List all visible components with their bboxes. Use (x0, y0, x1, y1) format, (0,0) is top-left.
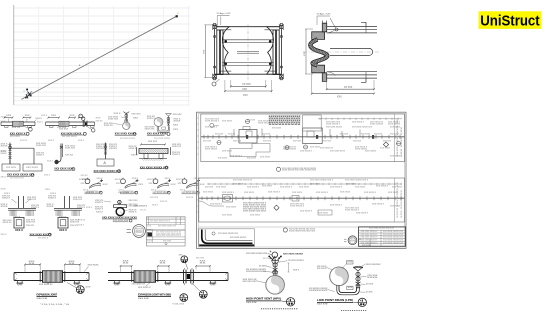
band1 small bubbles (246, 120, 250, 124)
pig glyph under sheet (196, 251, 304, 260)
band1 caption (276, 167, 280, 171)
svg-text:XXX XXXX: XXX XXXX (88, 265, 100, 267)
svg-text:XXX XXXX X: XXX XXXX X (376, 186, 389, 188)
svg-text:XXX X: XXX X (15, 229, 23, 232)
svg-text:XX: XX (29, 263, 37, 265)
svg-text:XXX XXXX X: XXX XXXX X (38, 237, 49, 239)
svg-text:XXX XXXX: XXX XXXX (10, 136, 21, 138)
svg-text:XXXXXXXXXX: XXXXXXXXXX (269, 124, 303, 126)
svg-text:EXPANSION JOINT: EXPANSION JOINT (37, 293, 58, 297)
svg-text:XXX XXXX XXXXX XXX: XXX XXXX XXXXX XXX (383, 234, 404, 236)
svg-text:XXX: XXX (173, 125, 179, 127)
svg-text:XXX XXXX: XXX XXXX (390, 127, 401, 129)
svg-text:XXX XXXX XX: XXX XXXX XX (320, 148, 334, 150)
svg-text:XXX XXX: XXX XXX (59, 129, 69, 131)
svg-text:XXX XXX: XXX XXX (132, 114, 142, 116)
mini expansion joint detail EJ-A (1, 115, 43, 138)
svg-text:XXXX X: XXXX X (77, 207, 86, 209)
svg-text:UniStruct: UniStruct (480, 13, 540, 29)
svg-text:XXX XXXX XXXXX XXX XXX: XXX XXXX XXXXX XXX XXX (369, 228, 395, 230)
svg-text:XXX XXXX: XXX XXXX (218, 158, 228, 160)
svg-text:XXX XXXX XXXXX X: XXX XXXX XXXXX X (361, 237, 379, 239)
svg-text:XXX: XXX (86, 287, 92, 289)
svg-text:XXX XXXX: XXX XXXX (203, 192, 214, 194)
svg-text:XXX XX: XXX XX (81, 175, 89, 177)
svg-text:XXX XXXX: XXX XXXX (310, 147, 321, 149)
svg-text:XXXX XXXXX XXX XXXX XXX: XXXX XXXXX XXX XXXX XXX (289, 230, 316, 232)
graph end-point marker (176, 15, 178, 17)
svg-text:XXXXXXXXXX: XXXXXXXXXX (309, 290, 329, 292)
band1 diamond symbols (383, 142, 388, 147)
svg-text:XXXX X: XXXX X (36, 154, 45, 156)
svg-text:XXX XXXX: XXX XXXX (380, 148, 391, 150)
svg-text:XXXX X: XXXX X (95, 208, 104, 210)
svg-text:XXX: XXX (337, 96, 342, 98)
svg-text:XXXX XX: XXXX XX (3, 222, 13, 224)
svg-text:XXXX X: XXXX X (2, 197, 11, 199)
svg-text:A: A (104, 161, 107, 165)
svg-text:XXX XXXX X: XXX XXXX X (230, 156, 243, 158)
svg-text:EXPANSION JOINT WITH DBB: EXPANSION JOINT WITH DBB (138, 293, 171, 297)
svg-text:XXX XXXX X: XXX XXXX X (352, 122, 365, 124)
svg-text:#XX XXXX XXXX: #XX XXXX XXXX (287, 260, 301, 262)
svg-text:XXX: XXX (171, 184, 177, 186)
drain L-pipe detail (54, 144, 90, 182)
svg-text:XXX XXXX XXXXX X: XXX XXXX XXXXX X (361, 240, 379, 242)
svg-text:XXX: XXX (51, 115, 57, 117)
svg-text:XXX XXXX XXXXX X: XXX XXXX XXXXX X (361, 231, 379, 233)
svg-text:XXX XXXX: XXX XXXX (250, 215, 261, 217)
anchor weld sq box 1 (3, 217, 36, 233)
svg-text:XXX: XXX (45, 189, 51, 191)
svg-text:XXXX XXXXX X: XXXX XXXXX X (205, 120, 220, 122)
svg-text:XXX XXXX: XXX XXXX (318, 213, 329, 215)
svg-text:XXXX: XXXX (367, 277, 379, 279)
svg-text:XXX XXXX XXXXX: XXX XXXX XXXXX (62, 136, 78, 138)
svg-text:XXX X: XXX X (149, 183, 155, 185)
svg-text:XXX X: XXX X (97, 178, 104, 180)
svg-text:XX App x XXX: XX App x XXX (317, 13, 332, 16)
svg-text:XXX XXX: XXX XXX (148, 141, 158, 143)
svg-text:* X 1G, X 1G: * X 1G, X 1G (172, 304, 185, 306)
svg-text:XXXXX X: XXXXX X (136, 232, 144, 234)
svg-text:XXX XXXX: XXX XXXX (118, 192, 130, 194)
svg-text:XXXX: XXXX (1, 153, 8, 155)
graph grid vertical lines (39, 6, 189, 105)
svg-text:XXX XXXX: XXX XXXX (260, 157, 271, 159)
svg-text:XXX XXXX XXXXX: XXX XXXX XXXXX (283, 254, 304, 256)
svg-text:XXX XXXX X: XXX XXXX X (210, 204, 223, 206)
band1 dense header text (269, 116, 303, 126)
low point drain detail LPD (301, 260, 382, 310)
svg-text:XXXX: XXXX (1, 206, 9, 208)
svg-text:XXX XXXX: XXX XXXX (26, 167, 39, 169)
svg-text:XXX XX: XXX XX (228, 134, 236, 136)
svg-text:XXX X: XXX X (13, 217, 21, 219)
svg-text:XXX XXX: XXX XXX (293, 141, 302, 143)
svg-text:XXX X: XXX X (132, 178, 139, 180)
band2 top tick line (207, 183, 402, 185)
svg-text:XXX XXXX XXXXX: XXX XXXX XXXXX (326, 127, 343, 129)
svg-text:XXXXX XXX XXXX XXXXX XXX X: XXXXX XXX XXXX XXXXX XXX X (156, 235, 182, 237)
sheet margin ticks (197, 118, 199, 212)
svg-text:HIGH POINT VENT (HPV): HIGH POINT VENT (HPV) (246, 297, 281, 301)
svg-text:XXXX XXX: XXXX XXX (145, 128, 156, 130)
svg-text:XX XXXX: XX XXXX (259, 266, 267, 268)
svg-text:XXX XXXX XXXXX XXX: XXX XXXX XXXXX XXX (383, 231, 404, 233)
svg-text:XXX: XXX (138, 184, 144, 186)
band1 right margin box (394, 114, 396, 162)
svg-text:XXXX: XXXX (47, 206, 55, 208)
svg-text:XXX XXX: XXX XXX (205, 187, 214, 189)
svg-text:XXX: XXX (204, 49, 206, 54)
svg-text:XXX X: XXX X (59, 229, 67, 232)
svg-text:XXXX X: XXXX X (129, 211, 138, 213)
svg-text:XXXX XXX: XXXX XXX (65, 147, 76, 149)
svg-text:XXX XX: XXX XX (20, 140, 28, 142)
svg-text:XXX X: XXX X (41, 115, 48, 117)
svg-text:XX XXX: XX XXX (242, 84, 251, 86)
svg-text:XXXX XXX XXXX XX: XXXX XXX XXXX XX (397, 117, 399, 157)
svg-text:XXX XXXX: XXX XXXX (226, 207, 237, 209)
svg-text:XXX XXXX: XXX XXXX (222, 121, 233, 123)
svg-text:XXX X: XXX X (1, 234, 8, 236)
svg-text:XXX XXXX: XXX XXXX (292, 192, 303, 194)
graph grid horizontal lines (log-scale) (14, 8, 190, 105)
svg-text:XXX XXXX X: XXX XXXX X (330, 205, 343, 207)
svg-text:XXX XXXX XXXXX XXX: XXX XXXX XXXXX XXX (158, 226, 177, 228)
mini low point drain detail (145, 114, 183, 141)
expansion joint elevation EJ-1 (14, 261, 99, 306)
svg-text:XXXX XXXXX: XXXX XXXXX (258, 122, 271, 124)
svg-text:XXXX XXXXX: XXXX XXXXX (205, 148, 218, 150)
svg-text:SCALE: NONE: SCALE: NONE (138, 297, 149, 300)
flange pair detail (95, 200, 138, 222)
svg-text:XXX X: XXX X (44, 175, 51, 177)
svg-text:XXX X: XXX X (59, 217, 67, 219)
svg-text:XXX XX: XXX XX (26, 225, 35, 227)
svg-text:XXX XXXX: XXX XXXX (365, 151, 377, 153)
svg-text:XXX XXXX: XXX XXXX (6, 167, 17, 169)
svg-text:XXXX: XXXX (173, 120, 181, 122)
sheet title block table (359, 227, 406, 246)
svg-text:XXXX XXXXX XXX XXXX XXXXX XXX: XXXX XXXXX XXX XXXX XXXXX XXX (282, 170, 317, 172)
svg-text:XXX XXXX: XXX XXXX (247, 158, 257, 160)
svg-text:XXX XXXX XXX: XXX XXXX XXX (401, 189, 403, 218)
band1 equipment rect 1 (239, 127, 257, 144)
svg-text:XXX X: XXX X (50, 193, 57, 195)
svg-text:XXX: XXX (173, 129, 179, 131)
svg-text:XXXX XXXXXXX: XXXX XXXXXXX (366, 264, 382, 266)
svg-text:XX XXX: XX XXX (366, 292, 373, 294)
svg-text:XXX XXXX: XXX XXXX (361, 134, 371, 136)
pipe branch connection details (x4) (79, 178, 109, 195)
specification table (134, 205, 185, 246)
svg-text:XXX XXXX XXXXX X: XXX XXXX XXXXX X (361, 234, 379, 236)
sheet inner divider line (199, 226, 406, 228)
svg-text:XXX XX: XXX XX (86, 192, 95, 194)
svg-text:XXX XXX: XXX XXX (215, 134, 224, 136)
svg-text:XXX XXXX: XXX XXXX (233, 183, 244, 185)
svg-text:XXXXX: XXXXX (109, 148, 118, 150)
svg-text:XXX X: XXX X (96, 211, 104, 213)
band1 left bubble (210, 123, 214, 127)
vent manifold piping detail (1, 143, 47, 180)
svg-text:XXX XXXX: XXX XXXX (216, 187, 227, 189)
svg-text:XXX: XXX (348, 287, 354, 289)
svg-text:XXXX XX: XXXX XX (26, 221, 36, 223)
svg-text:SCALE: NONE: SCALE: NONE (37, 297, 48, 300)
drawing sheet border (197, 112, 407, 248)
svg-text:XXXX XXXXX X: XXXX XXXXX X (345, 209, 360, 211)
svg-text:XXX XX: XXX XX (78, 220, 86, 222)
svg-text:XXX XXXX XXXXX XXX: XXX XXXX XXXXX XXX (218, 233, 239, 235)
svg-text:XXX XX: XXX XX (186, 197, 194, 199)
graph annotation cluster near origin (26, 92, 31, 99)
svg-text:XXX XXXX X: XXX XXXX X (300, 211, 313, 213)
svg-text:XX: XX (301, 260, 306, 262)
svg-text:XXX: XXX (25, 115, 31, 117)
svg-text:XXX XXX: XXX XXX (353, 141, 362, 143)
riser stack detail (94, 143, 121, 173)
svg-text:XXX XXXX: XXX XXXX (272, 128, 282, 130)
sheet band drawing 1 frame (201, 114, 405, 162)
svg-text:XXXX XXX XXXX XX: XXXX XXX XXXX XX (397, 181, 399, 218)
svg-text:XXX X: XXX X (78, 225, 85, 227)
svg-text:XXXX XX: XXXX XX (27, 199, 37, 201)
svg-text:XXX XXXX XXX: XXX XXXX XXX (401, 125, 403, 157)
svg-text:XXX XXXX XXXXX XXX X: XXX XXXX XXXXX XXX X (150, 220, 171, 222)
svg-text:XXX XXXX X: XXX XXXX X (268, 192, 281, 194)
bellows expansion joint section view B1 (204, 12, 284, 97)
svg-text:XXX XXX: XXX XXX (173, 114, 183, 116)
svg-text:XXX XXXX: XXX XXXX (390, 206, 401, 208)
svg-text:XXX XXXX: XXX XXXX (244, 192, 255, 194)
mini expansion joint with DBB detail EJ-B (46, 114, 95, 138)
svg-text:XXX XXXX X: XXX XXXX X (316, 192, 329, 194)
svg-text:XXX XXXX X: XXX XXXX X (356, 213, 369, 215)
svg-text:XXX X: XXX X (165, 178, 172, 180)
svg-text:XXX X: XXX X (48, 140, 55, 142)
svg-text:XXX X: XXX X (147, 240, 153, 242)
svg-text:XX XXX: XX XXX (366, 284, 374, 286)
svg-text:XXX XXX XX: XXX XXX XX (317, 268, 327, 270)
svg-text:XXX X: XXX X (37, 122, 44, 124)
sheet band drawing 2 frame (199, 178, 405, 222)
svg-text:XXX XXXX XXXXX XX: XXX XXXX XXXXX XX (233, 180, 253, 182)
high point vent detail HPV (243, 256, 302, 309)
svg-text:XXX XXXX X: XXX XXXX X (364, 192, 377, 194)
svg-text:XXX XXXX: XXX XXXX (222, 215, 233, 217)
svg-text:XXX X: XXX X (152, 205, 159, 207)
band2 pipeline (199, 197, 405, 199)
svg-text:XXX: XXX (103, 184, 109, 186)
band1 pipeline ticks (204, 135, 400, 139)
band1 top tick line (318, 118, 402, 120)
svg-text:XXX XX: XXX XX (65, 155, 74, 157)
svg-text:XXX XXXX: XXX XXXX (163, 241, 172, 243)
sheet approval stamp (344, 236, 372, 247)
svg-text:XXX XXXX: XXX XXXX (310, 183, 321, 185)
svg-text:XXX XXXX XXXX: XXX XXXX XXXX (330, 151, 346, 153)
svg-text:XXX: XXX (133, 118, 139, 120)
svg-text:XXXXX: XXXXX (96, 148, 105, 150)
band1 equipment rect 2 (303, 115, 323, 144)
band1 risers (234, 129, 360, 137)
graph diagonal data line (21, 16, 176, 99)
svg-text:XXX XXXX XX: XXX XXXX XX (132, 283, 146, 285)
svg-text:XX: XX (123, 262, 131, 264)
svg-text:XXX XXXX X: XXX XXXX X (330, 187, 343, 189)
mini high point vent detail (104, 112, 141, 141)
svg-text:XXX X: XXX X (78, 140, 85, 142)
svg-text:XXX XXXX XXXXX XXX: XXX XXXX XXXXX XXX (352, 127, 373, 129)
svg-text:XXXX XX: XXXX XX (73, 199, 83, 201)
svg-text:XXX XXXX XXXXX: XXX XXXX XXXXX (154, 138, 171, 140)
svg-text:XXX XXXX: XXX XXXX (362, 245, 372, 247)
svg-text:XXX X: XXX X (4, 193, 11, 195)
svg-text:XXX XXXX XXXXX X: XXX XXXX XXXXX X (361, 242, 379, 244)
svg-text:XXXX X: XXXX X (129, 148, 138, 150)
svg-text:XXX XXXX XXXXX XXX: XXX XXXX XXXXX XXX (383, 240, 404, 242)
graph y-axis (13, 5, 15, 105)
band2 equipment small rects (223, 195, 233, 203)
svg-text:XXX X: XXX X (114, 113, 122, 115)
svg-text:SCALE: NONE: SCALE: NONE (246, 301, 257, 304)
svg-text:XXX XXXX: XXX XXXX (340, 192, 351, 194)
svg-text:XXX XXX: XXX XXX (374, 134, 383, 136)
svg-text:XXX: XXX (242, 89, 247, 91)
svg-text:XX: XX (69, 263, 77, 265)
svg-text:XXX XXX: XXX XXX (262, 134, 271, 136)
svg-text:XXX: XXX (1, 189, 7, 191)
band1 valve marks on line (246, 135, 248, 139)
svg-text:XXX XX: XXX XX (140, 210, 147, 212)
svg-text:XXXX XXXXX XXX XXXX XXXXX: XXXX XXXXX XXX XXXX XXXXX (156, 233, 182, 235)
svg-text:XXX X: XXX X (81, 183, 87, 185)
svg-text:XXX XXXX X: XXX XXXX X (138, 287, 151, 289)
svg-text:XXX XXX: XXX XXX (203, 141, 212, 143)
band2 left tail curve (199, 201, 224, 206)
svg-text:XXXX XXXXX X: XXXX XXXXX X (326, 123, 341, 125)
svg-text:XXX X: XXX X (1, 117, 8, 119)
pig trap stamp circle (86, 192, 152, 237)
svg-text:XXX XXXX XXXXX XXX: XXX XXXX XXXXX XXX (383, 242, 404, 244)
svg-text:XXX XXX: XXX XXX (340, 134, 349, 136)
svg-text:SCALE: NONE: SCALE: NONE (317, 303, 328, 306)
svg-text:XXX XX: XXX XX (79, 179, 87, 181)
svg-text:XXX XXXX X: XXX XXXX X (300, 151, 313, 153)
anchor weld sq box 2 (58, 217, 80, 233)
svg-text:XXX XX: XXX XX (12, 127, 21, 129)
sheet field-connection detail box (199, 229, 255, 246)
svg-text:LOW POINT DRAIN (LPD): LOW POINT DRAIN (LPD) (317, 298, 353, 302)
expansion joint elevation EJ-2 with DBB (108, 254, 228, 305)
svg-text:XXX XXXX X: XXX XXXX X (222, 192, 235, 194)
svg-text:XXX X: XXX X (178, 183, 184, 185)
svg-text:XXXX XXXXX XXX XXXX: XXXX XXXXX XXX XXXX (243, 211, 267, 213)
svg-text:XXXX X: XXXX X (147, 118, 156, 120)
svg-text:XXX XXXX X: XXX XXXX X (247, 187, 260, 189)
svg-text:XXX XXX XXX: XXX XXX XXX (243, 281, 258, 283)
svg-text:XXX XXX: XXX XXX (150, 197, 159, 199)
svg-text:XXX XXXX XXXXX: XXX XXXX XXXXX (230, 237, 247, 239)
anchor weld detail 2 (47, 193, 86, 216)
svg-text:XXX X: XXX X (1, 177, 8, 179)
svg-text:* X 1G, X 1G, X 1GL, * 1G: * X 1G, X 1G, X 1GL, * 1G (40, 304, 70, 306)
svg-text:XXX XXXX XXXXX XXX: XXX XXXX XXXXX XXX (246, 253, 268, 255)
svg-text:XXX XXX: XXX XXX (233, 141, 242, 143)
svg-text:XXX XXX: XXX XXX (263, 141, 272, 143)
svg-text:XXX X: XXX X (86, 207, 93, 209)
svg-text:XXX XX: XXX XX (147, 179, 155, 181)
svg-text:XXXX XX: XXXX XX (70, 221, 80, 223)
svg-text:XXX XXXX XXXXX XXX X: XXX XXXX XXXXX XXX X (310, 180, 334, 182)
svg-text:XXX XX: XXX XX (160, 201, 168, 203)
svg-text:XXX XXXX X: XXX XXXX X (372, 204, 385, 206)
UniStruct logo (479, 11, 542, 29)
svg-text:XXX: XXX (70, 115, 76, 117)
svg-text:XXXX X: XXXX X (31, 207, 40, 209)
band2 caption (283, 228, 287, 232)
svg-text:XXX: XXX (147, 226, 152, 228)
svg-text:XXX: XXX (243, 95, 248, 97)
svg-text:XXX XXXX: XXX XXXX (355, 187, 366, 189)
svg-text:XX App x XXX: XX App x XXX (217, 12, 232, 15)
band2 diamond (274, 205, 279, 210)
svg-text:XXXX XXX: XXXX XXX (36, 145, 47, 147)
svg-text:XXXX X: XXXX X (48, 197, 57, 199)
band1 pipeline (201, 136, 405, 138)
svg-text:XXX XXXX XXXXX XXX XXXX XX: XXX XXXX XXXXX XXX XXXX XX (156, 232, 182, 234)
svg-text:XXX XXXX: XXX XXXX (196, 258, 205, 260)
svg-text:XXX XXXX: XXX XXXX (346, 183, 357, 185)
svg-text:XXX XXXX X: XXX XXXX X (134, 205, 148, 207)
svg-text:XXX XXXX: XXX XXXX (262, 186, 273, 188)
svg-text:XXX XXXX X: XXX XXXX X (280, 187, 293, 189)
band1 lower step outline (230, 144, 270, 157)
svg-text:XXXX XXX: XXXX XXX (108, 119, 119, 121)
svg-text:XXXX X: XXXX X (95, 202, 104, 204)
svg-text:XXX: XXX (6, 115, 12, 117)
svg-text:XXXX: XXXX (1, 145, 9, 147)
svg-text:XXX XXXX: XXX XXXX (222, 151, 233, 153)
svg-text:XX: XX (160, 262, 168, 264)
svg-text:XXX XXXX XXXXX: XXX XXXX XXXXX (120, 138, 136, 140)
svg-text:XX XXX: XX XXX (344, 87, 353, 89)
svg-text:XXX XXXX: XXX XXXX (299, 187, 310, 189)
svg-text:XXX: XXX (96, 117, 102, 119)
svg-text:XXX XX: XXX XX (96, 121, 104, 123)
svg-text:XXX X: XXX X (293, 270, 300, 272)
svg-text:XXX X: XXX X (116, 183, 122, 185)
svg-text:XX: XX (200, 262, 208, 264)
svg-text:XXXX XXXXX X: XXXX XXXXX X (290, 205, 305, 207)
bellows expansion joint half-section view B2 (303, 13, 379, 99)
anchor weld detail 1 (1, 193, 40, 216)
band2 right margin box (394, 178, 396, 222)
pipe sleeve support detail (129, 141, 182, 169)
svg-text:XXX XXXX XXXX: XXX XXXX XXXX (10, 177, 25, 179)
svg-text:XXX XXX: XXX XXX (129, 200, 139, 202)
svg-text:XXX XXX: XXX XXX (323, 141, 332, 143)
svg-text:XXXX XX: XXXX XX (172, 146, 182, 148)
svg-text:XXX XXXX XX: XXX XXXX XX (39, 284, 53, 286)
svg-text:XXXX XX: XXXX XX (104, 125, 114, 127)
svg-text:XXX XXXX XXXXX XXX: XXX XXXX XXXXX XXX (383, 237, 404, 239)
svg-text:XXX XX: XXX XX (176, 179, 184, 181)
svg-text:XXX XX: XXX XX (115, 179, 123, 181)
